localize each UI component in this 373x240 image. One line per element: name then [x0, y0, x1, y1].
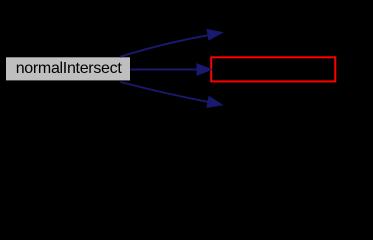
edge to middle node (wire) — [130, 64, 212, 75]
node (truncated, red border) — [211, 57, 335, 81]
svg-text:normalIntersect: normalIntersect — [16, 60, 123, 77]
edge to top node (wire) — [120, 30, 222, 57]
node normalIntersect (current node, grey fill) — [6, 57, 130, 80]
edge to bottom node (wire) — [121, 82, 223, 107]
